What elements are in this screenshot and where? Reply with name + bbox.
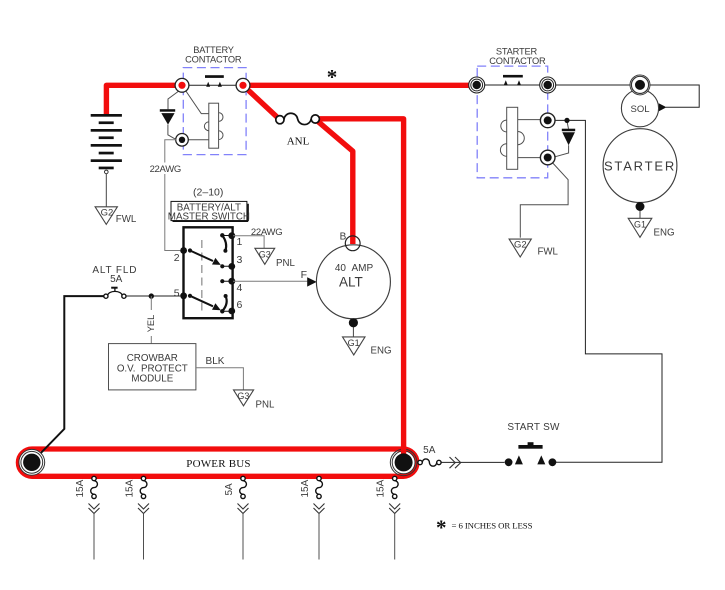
svg-text:5: 5 bbox=[174, 288, 180, 300]
ground G1 ENG (starter) bbox=[628, 218, 674, 238]
battery contactor coil bbox=[204, 103, 223, 148]
svg-text:G1: G1 bbox=[348, 338, 360, 348]
master switch blade arrow pole 1 bbox=[190, 251, 221, 265]
svg-text:(2–10): (2–10) bbox=[193, 186, 223, 198]
wire 22AWG contactor coil to master switch pin 2 bbox=[165, 140, 181, 251]
ground G3 PNL (crowbar) bbox=[234, 390, 275, 411]
starter contactor contact bbox=[503, 75, 523, 85]
start switch bbox=[505, 422, 560, 466]
circuit breaker ALT FLD bbox=[104, 288, 126, 299]
svg-text:SOL: SOL bbox=[630, 104, 649, 115]
wire diode (starter contactor) bbox=[554, 120, 569, 157]
svg-text:6: 6 bbox=[237, 299, 243, 311]
master switch dashed divider bbox=[201, 240, 203, 315]
F arrow bbox=[307, 277, 317, 286]
svg-text:ALT: ALT bbox=[339, 275, 363, 290]
wire starter contactor through SOL loop bbox=[477, 85, 700, 107]
starter contactor coil bbox=[500, 107, 524, 169]
svg-text:BLK: BLK bbox=[206, 356, 225, 367]
wire battery contactor terminals bbox=[182, 84, 243, 86]
solenoid SOL bbox=[621, 90, 658, 127]
note: asterisk = 6 inches or less bbox=[436, 516, 533, 540]
terminal starter contactor coil bottom bbox=[540, 150, 555, 165]
svg-text:G3: G3 bbox=[237, 391, 249, 401]
master switch blade arrow pole 2 bbox=[190, 296, 221, 310]
wire power bus to ALT FLD breaker bbox=[32, 296, 104, 462]
svg-text:40 AMP: 40 AMP bbox=[335, 263, 374, 274]
wire bus to start switch bbox=[441, 461, 504, 463]
master switch blade arc pole 2 bbox=[223, 296, 227, 311]
svg-text:F: F bbox=[301, 269, 307, 281]
fuse 5A (bus tap at x=243) bbox=[224, 476, 249, 559]
SOL arrow bbox=[659, 103, 667, 111]
ground G2 FWL (starter contactor) bbox=[509, 239, 558, 257]
svg-text:*: * bbox=[327, 65, 338, 89]
wire alternator to ground bbox=[352, 327, 354, 337]
crowbar OV protect module bbox=[109, 344, 196, 390]
wire starter to ground bbox=[639, 211, 641, 218]
wire ANL fuse to power bus (red) bbox=[315, 119, 403, 462]
svg-text:ENG: ENG bbox=[371, 346, 392, 357]
wire coil terminal to ground (starter contactor) bbox=[520, 158, 568, 238]
wire battery contactor to starter contactor (red) bbox=[243, 83, 477, 88]
svg-text:*: * bbox=[436, 516, 447, 540]
diode (battery contactor) bbox=[160, 109, 175, 124]
diode (starter contactor) bbox=[562, 129, 575, 146]
alternator ground dot bbox=[349, 318, 358, 327]
terminal battery contactor left bbox=[175, 78, 189, 92]
terminal starter contactor right bbox=[540, 77, 556, 93]
terminal SOL bbox=[630, 75, 650, 95]
fuse 15A (bus tap at x=143.5) bbox=[125, 476, 150, 559]
fuse 15A (bus tap at x=394.7) bbox=[376, 476, 401, 559]
svg-text:= 6 INCHES OR LESS: = 6 INCHES OR LESS bbox=[452, 520, 533, 530]
master switch pins bbox=[180, 232, 235, 314]
master switch S1 box bbox=[184, 227, 233, 318]
svg-text:15A: 15A bbox=[125, 479, 136, 497]
battery contactor box bbox=[183, 68, 246, 155]
svg-text:BATTERY: BATTERY bbox=[193, 45, 234, 55]
battery bbox=[91, 114, 122, 174]
svg-text:PNL: PNL bbox=[256, 400, 275, 411]
wire BLK crowbar to ground bbox=[196, 368, 243, 390]
svg-text:G2: G2 bbox=[101, 207, 114, 218]
chevrons to start switch bbox=[450, 457, 461, 468]
svg-text:4: 4 bbox=[237, 282, 243, 294]
fuse 15A (bus tap at x=319) bbox=[300, 476, 325, 559]
wire junction to start switch bbox=[548, 120, 662, 462]
svg-text:YEL: YEL bbox=[146, 315, 156, 333]
wire coil to terminals (starter contactor) bbox=[518, 120, 548, 158]
ground G2 FWL (battery) bbox=[95, 207, 137, 225]
svg-text:CONTACTOR: CONTACTOR bbox=[489, 56, 546, 66]
svg-text:FWL: FWL bbox=[538, 247, 559, 258]
wire breaker to pin 5 bbox=[126, 295, 180, 297]
battery contactor label bbox=[185, 45, 242, 65]
terminal starter contactor left bbox=[469, 77, 485, 93]
wire battery contactor to ANL fuse (red) bbox=[243, 85, 280, 119]
battery contactor contact bbox=[205, 75, 224, 87]
svg-text:MASTER SWITCH: MASTER SWITCH bbox=[168, 212, 250, 223]
svg-text:POWER BUS: POWER BUS bbox=[186, 458, 250, 470]
svg-text:START SW: START SW bbox=[507, 422, 560, 433]
svg-text:5A: 5A bbox=[423, 445, 436, 456]
wire to diode (battery contactor) bbox=[168, 91, 180, 140]
wire battery to ground bbox=[105, 174, 107, 207]
svg-text:CONTACTOR: CONTACTOR bbox=[185, 55, 242, 65]
master switch blade arc pole 1 bbox=[222, 235, 226, 250]
wire pin 1 to ground G3 bbox=[233, 236, 264, 248]
svg-text:FWL: FWL bbox=[116, 214, 137, 225]
svg-text:15A: 15A bbox=[300, 479, 311, 497]
svg-text:STARTER: STARTER bbox=[496, 46, 538, 56]
battery/alt master switch label box bbox=[168, 201, 250, 222]
junction node (diode tap) bbox=[564, 118, 569, 123]
wire YEL to crowbar module bbox=[150, 296, 152, 343]
terminal power bus left bbox=[19, 449, 45, 475]
fuse 5A (start circuit) bbox=[418, 445, 441, 466]
svg-text:G2: G2 bbox=[514, 240, 527, 251]
wire battery contactor coil bottom bbox=[188, 139, 209, 141]
svg-text:22AWG: 22AWG bbox=[150, 164, 181, 175]
power bus bbox=[18, 449, 417, 476]
svg-text:5A: 5A bbox=[224, 483, 235, 496]
svg-text:15A: 15A bbox=[75, 479, 86, 497]
svg-text:ANL: ANL bbox=[287, 136, 310, 148]
ground G1 ENG (alternator) bbox=[343, 337, 392, 357]
pin number labels bbox=[174, 236, 243, 311]
terminal starter contactor coil top bbox=[540, 113, 555, 128]
starter contactor label bbox=[489, 46, 546, 66]
svg-text:STARTER: STARTER bbox=[604, 158, 676, 173]
terminal battery contactor right bbox=[236, 78, 250, 92]
ground G3 PNL (master switch) bbox=[255, 248, 296, 269]
svg-text:5A: 5A bbox=[110, 274, 123, 285]
svg-text:CROWBAR: CROWBAR bbox=[127, 353, 178, 364]
svg-text:2: 2 bbox=[174, 252, 180, 264]
alternator B terminal ring bbox=[345, 236, 360, 251]
svg-text:22AWG: 22AWG bbox=[251, 227, 282, 238]
svg-text:ENG: ENG bbox=[654, 228, 675, 239]
svg-text:15A: 15A bbox=[376, 479, 387, 497]
starter contactor box bbox=[477, 66, 548, 178]
wire battery contactor to coil top bbox=[184, 88, 209, 114]
fuse 15A (bus tap at x=94) bbox=[75, 476, 100, 559]
svg-text:B: B bbox=[340, 232, 347, 243]
junction node (YEL tap) bbox=[149, 293, 154, 298]
starter ground dot bbox=[636, 202, 645, 211]
terminal battery contactor coil bbox=[176, 134, 189, 147]
wire pin 4 to alternator F bbox=[233, 280, 307, 282]
svg-text:G3: G3 bbox=[259, 249, 271, 259]
wire battery to battery contactor (red) bbox=[106, 85, 182, 116]
starter motor bbox=[603, 129, 677, 203]
label ALT FLD 5A bbox=[92, 265, 137, 285]
alternator ALT bbox=[316, 245, 390, 319]
wire ANL fuse to alternator B terminal (red) bbox=[315, 119, 353, 244]
svg-text:3: 3 bbox=[237, 254, 243, 266]
svg-text:1: 1 bbox=[237, 236, 243, 248]
svg-text:G1: G1 bbox=[634, 219, 646, 229]
terminal power bus right bbox=[390, 448, 417, 476]
svg-text:PNL: PNL bbox=[276, 258, 295, 269]
ANL fuse bbox=[276, 113, 320, 147]
svg-text:MODULE: MODULE bbox=[131, 374, 173, 385]
